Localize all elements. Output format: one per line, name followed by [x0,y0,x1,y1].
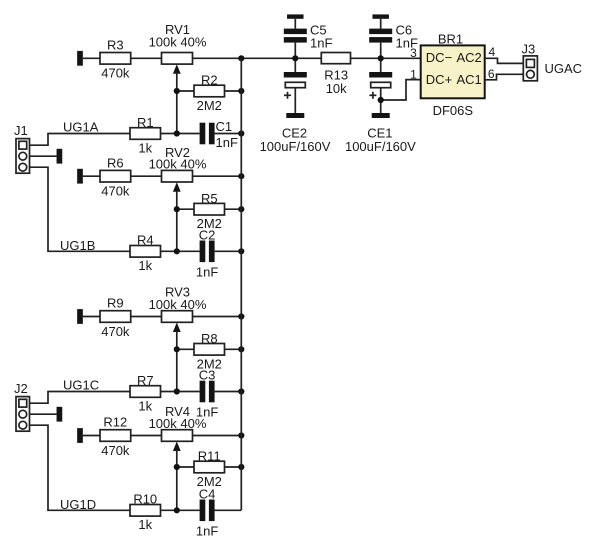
wire RV4 wiper [176,450,178,511]
terminal pad J2 pin2 [57,407,63,422]
terminal pad left of R6 [77,169,83,184]
svg-text:R4: R4 [137,233,154,248]
svg-text:2M2: 2M2 [197,98,222,113]
svg-text:470k: 470k [101,184,130,199]
capacitor C3 1nF [196,368,218,420]
svg-text:1k: 1k [138,258,152,273]
wire J1 pin3 to UG1B [30,167,131,251]
wire R8 leads [177,348,242,350]
junction R7/C3 wiper [174,388,180,394]
svg-text:R6: R6 [107,155,124,170]
wire R10 to capacitor C4 [161,509,200,511]
svg-text:C3: C3 [199,368,216,383]
svg-text:1nF: 1nF [196,264,218,279]
wire RV3 wiper [176,331,178,392]
svg-text:UG1A: UG1A [63,120,99,135]
junction RV1 bus [238,55,244,61]
terminal pad left of R9 [77,309,83,324]
junction CE1 pin1 tap [378,97,384,103]
capacitor CE2 100uF/160V [260,58,331,154]
capacitor C5 1nF [284,19,333,59]
junction R2 wiper [174,88,180,94]
connector J1 [14,123,30,173]
terminal pad below CE1 [372,113,390,118]
wire R3 left lead [83,57,100,59]
svg-text:R10: R10 [133,492,157,507]
wire R7 to capacitor C3 [161,391,200,393]
junction RV4 bus [238,432,244,438]
wire R6 left lead [83,175,100,177]
terminal pad J1 pin2 [57,149,63,164]
junction C1 bus [238,130,244,136]
svg-text:AC2: AC2 [457,50,482,65]
wire R12 to RV4 [131,435,162,437]
pin 3 label [410,46,417,60]
svg-text:R12: R12 [103,415,127,430]
wire J2 pin1 to UG1C [30,392,131,404]
svg-text:UG1D: UG1D [60,497,96,512]
svg-text:C4: C4 [199,486,216,501]
svg-text:J1: J1 [14,123,28,138]
wire C3 to bus [215,391,242,393]
svg-text:R9: R9 [107,296,124,311]
node UG1A [63,120,99,135]
resistor R4 [130,233,161,274]
svg-text:10k: 10k [326,81,347,96]
svg-text:R11: R11 [198,449,221,464]
junction RV3 bus [238,313,244,319]
svg-text:AC1: AC1 [457,72,482,87]
svg-text:C2: C2 [199,227,216,242]
wire BR1 pin4 to J3 [485,58,527,63]
pin 1 label [410,68,417,82]
wire R2 leads [177,90,242,92]
wire RV4 to bus [193,435,242,437]
junction R8 wiper [174,346,180,352]
terminal pad left of R3 [77,51,83,66]
pin 4 label [489,45,496,59]
junction R2 bus [238,88,244,94]
potentiometer RV4 100k 40% [149,404,207,451]
resistor R2 [194,73,225,113]
svg-text:1k: 1k [138,140,152,155]
wire R1 to capacitor C1 [161,133,200,135]
svg-text:UG1C: UG1C [63,378,99,393]
wire R12 left lead [83,435,100,437]
svg-text:1k: 1k [138,398,152,413]
resistor R13 10k [321,53,350,97]
node UG1B [60,238,95,253]
node UGAC [545,61,583,76]
connector J3 [522,42,538,81]
svg-text:1nF: 1nF [216,135,238,150]
resistor R11 [194,449,225,489]
resistor R12 [100,415,131,458]
resistor R1 [130,115,161,156]
svg-text:R7: R7 [137,373,154,388]
junction C2 bus [238,248,244,254]
wire J2 pin3 to UG1D [30,425,131,510]
svg-text:100uF/160V: 100uF/160V [260,139,331,154]
svg-text:1nF: 1nF [196,523,218,538]
wire RV1 wiper [176,73,178,134]
terminal pad above C5 [287,14,304,18]
junction R1/C1 wiper [174,130,180,136]
junction R4/C2 wiper [174,248,180,254]
junction R5 bus [238,206,244,212]
wire CE1 to BR1 pin1 [381,80,421,100]
resistor R9 [100,296,131,339]
potentiometer RV1 100k 40% [149,22,207,74]
wire C2 to bus [215,250,242,252]
junction R11 wiper [174,464,180,470]
svg-text:470k: 470k [101,324,130,339]
junction C6/CE1 top [378,55,384,61]
resistor R10 [130,492,161,532]
capacitor C2 1nF [196,227,218,279]
potentiometer RV2 100k 40% [149,145,207,192]
wire R13 to C6 node [351,57,421,59]
wire RV2 to bus [193,175,242,177]
svg-text:3: 3 [410,46,417,60]
wire R6 to RV2 [131,175,162,177]
wire R5 leads [177,208,242,210]
wire J1 pin1 to UG1A [30,134,131,146]
wire R9 to RV3 [131,316,162,318]
resistor R8 [194,331,225,371]
svg-text:J3: J3 [522,42,536,57]
bridge rectifier BR1 DF06S [421,31,485,118]
wire R11 leads [177,466,242,468]
junction R11 bus [238,464,244,470]
node UG1C [63,378,99,393]
svg-text:1k: 1k [138,517,152,532]
svg-text:100k 40%: 100k 40% [149,297,207,312]
svg-text:100uF/160V: 100uF/160V [345,139,416,154]
svg-text:BR1: BR1 [438,31,463,46]
junction C5/CE2 [292,55,298,61]
svg-text:UGAC: UGAC [545,61,583,76]
junction R10/C4 wiper [174,507,180,513]
connector J2 [14,381,30,431]
svg-text:4: 4 [489,45,496,59]
wire main vertical bus [240,58,242,510]
terminal pad left of R12 [77,428,83,443]
svg-text:100k 40%: 100k 40% [149,157,207,172]
resistor R6 [100,155,131,198]
svg-text:DC−: DC− [426,50,452,65]
capacitor C6 1nF [369,19,418,59]
svg-text:DF06S: DF06S [433,103,474,118]
terminal pad above C6 [372,14,389,18]
resistor R3 [100,38,131,81]
svg-text:R2: R2 [201,73,218,88]
junction RV2 bus [238,173,244,179]
wire BR1 pin6 to J3 [485,74,527,80]
wire C4 to bus [215,509,242,511]
node UG1D [60,497,96,512]
resistor R5 [194,191,225,231]
wire J2 pin2 to pad [30,413,57,415]
resistor R7 [130,373,161,414]
svg-text:1: 1 [410,68,417,82]
svg-text:C1: C1 [216,119,233,134]
svg-text:R1: R1 [137,115,154,130]
wire J1 pin2 to pad [30,155,57,157]
wire R4 to capacitor C2 [161,250,200,252]
potentiometer RV3 100k 40% [149,285,207,333]
svg-text:470k: 470k [101,443,130,458]
wire R9 left lead [83,316,100,318]
junction R5 wiper [174,206,180,212]
svg-text:R8: R8 [201,331,218,346]
svg-text:UG1B: UG1B [60,238,95,253]
svg-text:100k 40%: 100k 40% [149,34,207,49]
svg-text:DC+: DC+ [426,72,452,87]
wire RV3 to bus [193,316,242,318]
wire C1 to bus [215,133,242,135]
svg-text:1nF: 1nF [310,35,332,50]
capacitor C4 1nF [196,486,218,538]
pin 6 label [488,67,495,81]
terminal pad below CE2 [286,113,304,118]
svg-text:J2: J2 [14,381,28,396]
wire R3 to RV1 [131,57,162,59]
svg-text:470k: 470k [101,66,130,81]
svg-text:R3: R3 [107,38,124,53]
wire RV1 to bus [193,57,322,59]
svg-text:100k 40%: 100k 40% [149,416,207,431]
capacitor CE1 100uF/160V [345,58,416,154]
junction R8 bus [238,346,244,352]
svg-text:R5: R5 [201,191,218,206]
junction C3 bus [238,388,244,394]
wire RV2 wiper [176,191,178,252]
capacitor C1 1nF [200,119,238,150]
